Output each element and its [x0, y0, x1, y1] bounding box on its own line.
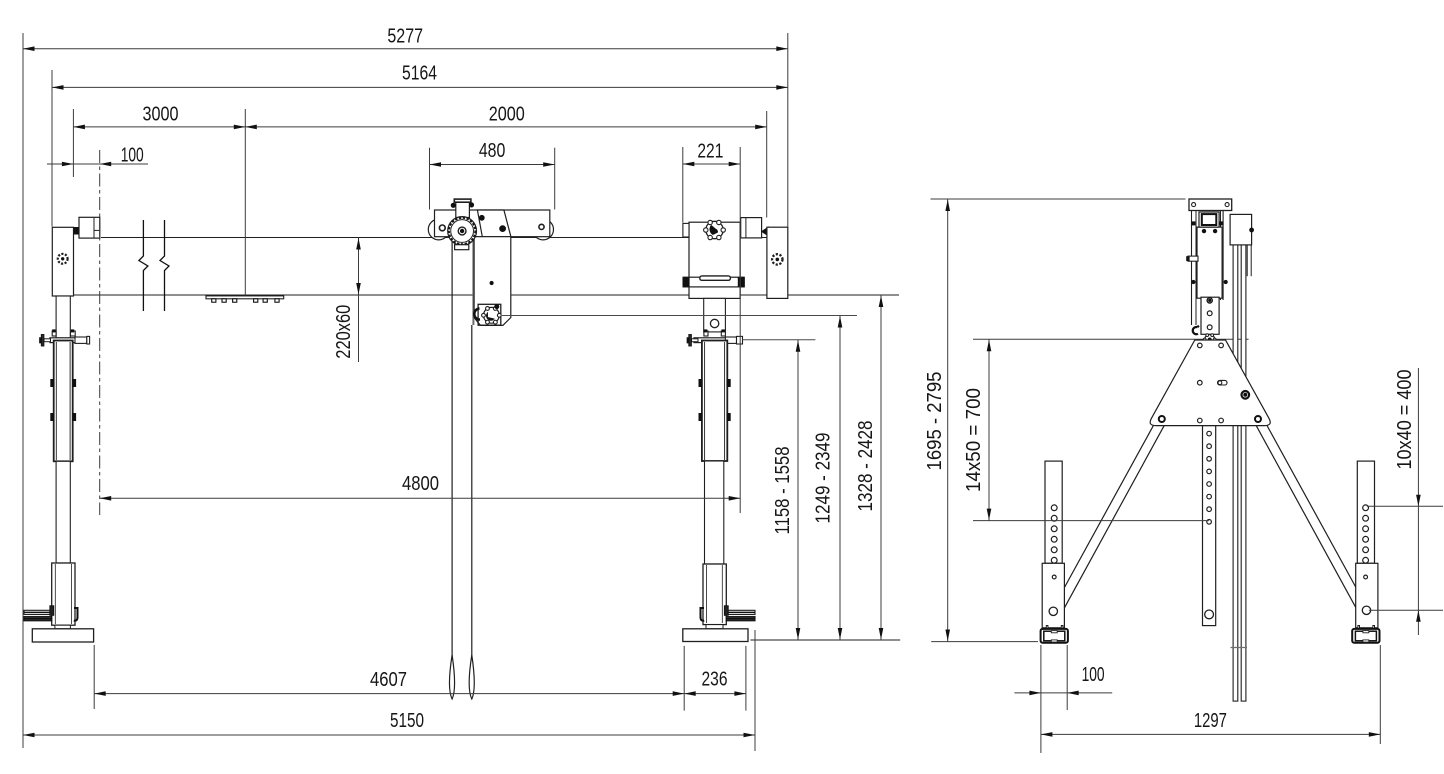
extension line x766.7 (2000 right): [766, 111, 768, 218]
dimension 1158-1558: [797, 340, 799, 640]
right post tube hole: [710, 319, 718, 327]
svg-text:5150: 5150: [390, 710, 424, 732]
svg-text:4800: 4800: [402, 473, 439, 495]
rv winch frame: [1199, 212, 1219, 227]
end bar gear knob: [772, 254, 782, 264]
rv left post holes: [1051, 505, 1057, 511]
hook housing bolt: [495, 305, 499, 309]
svg-text:2000: 2000: [489, 104, 525, 126]
dimension 10x40=400: [1417, 368, 1419, 635]
pulley lower bracket: [455, 245, 469, 250]
trolley plate: [435, 210, 550, 237]
left post mid clamp screw: [75, 337, 87, 343]
trolley top bracket: [456, 202, 470, 217]
dimension 480: [430, 164, 555, 166]
hook housing box: [478, 304, 501, 325]
beam right end bar: [767, 227, 788, 298]
dimension 5150: [23, 734, 755, 736]
clamp lever black triangle: [762, 227, 769, 236]
rv mast channel: [1197, 227, 1222, 298]
rv dimension 1297: [1041, 733, 1380, 735]
rv left leg: [1049, 421, 1157, 617]
rv box lower lines: [1246, 245, 1248, 276]
dimension 4607: [94, 693, 684, 695]
right post neck: [706, 625, 723, 629]
beam bottom line (extends right as ref for 1328-2428): [74, 294, 899, 296]
trolley top bracket bolts: [451, 203, 455, 207]
extension line x682.8 (221 left): [682, 147, 684, 223]
rv left post lower box: [1042, 563, 1064, 628]
hanger bracket (trapezoid): [477, 210, 511, 237]
rv right attachment box: [1230, 214, 1252, 245]
beam break line 1: [139, 220, 148, 311]
pulley inner rings: [458, 227, 466, 235]
extension line x94.2 (4607 left): [93, 645, 95, 709]
trolley right wheel hole: [539, 224, 544, 229]
rv lower plate hole 1: [1207, 298, 1212, 303]
right post mid clamp bar: [694, 338, 736, 343]
mounting plate under beam: [206, 296, 284, 299]
right post sleeve bolts lower: [699, 414, 702, 421]
rv left post upper: [1045, 461, 1062, 563]
bolt mark at beam left box: [74, 228, 78, 235]
lower hook reference line y315.5: [502, 315, 857, 317]
rv extension x1380.3: [1379, 645, 1381, 744]
dimension 4800: [100, 497, 741, 499]
beam break line 2: [160, 220, 169, 311]
rv star knob: [1205, 335, 1215, 345]
dimension 5277: [23, 48, 788, 50]
suspension plate dot: [490, 281, 493, 284]
rv right post big hole: [1362, 606, 1370, 614]
svg-text:1158 - 1558: 1158 - 1558: [772, 447, 794, 535]
rv box bolt: [1250, 228, 1254, 232]
extension line x745.9 (236 right): [745, 646, 747, 711]
rope loop left: [450, 655, 455, 699]
dimension 14x50=700: [988, 339, 990, 520]
rv 14x50 bottom ref line: [973, 520, 1209, 522]
rv center strap holes: [1207, 431, 1212, 436]
dimension 1695-2795: [947, 199, 949, 642]
right post sleeve: [702, 341, 727, 462]
rv right post small hole: [1364, 575, 1368, 579]
rv plate bottom holes: [1159, 416, 1165, 422]
left post sleeve bolts lower: [51, 414, 54, 421]
rv center strap: [1203, 426, 1216, 626]
mounting plate bolt teeth: [212, 299, 216, 302]
left post sleeve: [54, 341, 73, 462]
rv mast side rail right: [1220, 210, 1222, 300]
rv right foot: [1358, 626, 1360, 630]
beam right end box: [741, 218, 762, 238]
left post lower clamp right hook: [74, 608, 78, 621]
left post mid clamp tabs: [52, 331, 56, 336]
right post lower tube: [705, 461, 724, 564]
rv left post small hole: [1052, 575, 1056, 579]
rv plate hole mid: [1198, 380, 1203, 385]
fork reference line y339.7: [743, 339, 816, 341]
extension line x73.4 (3000 left): [72, 109, 74, 177]
pulley outer: [448, 217, 477, 246]
telescope mast left edge: [451, 237, 453, 657]
svg-text:1249 - 2349: 1249 - 2349: [813, 433, 835, 524]
svg-text:10x40 = 400: 10x40 = 400: [1394, 370, 1416, 470]
left post gear knob: [58, 254, 68, 264]
rv rail bar 1: [1233, 245, 1238, 701]
dimension 3000: [73, 126, 245, 128]
rv center strap bottom hole: [1205, 610, 1214, 619]
left post base plate: [32, 629, 93, 642]
rv rail break marks: [1231, 647, 1248, 649]
suspension plate: [474, 237, 511, 326]
rv mast side rail left: [1191, 210, 1193, 325]
dimension 236: [684, 693, 746, 695]
left post mid clamp T-handle: [44, 339, 51, 342]
svg-text:1297: 1297: [1194, 710, 1227, 732]
left post top block: [52, 227, 73, 296]
left post mid clamp bar: [50, 338, 87, 343]
dimension 5164: [52, 86, 788, 88]
rv top cap: [1189, 199, 1232, 211]
suspension plate bolt 1: [479, 215, 484, 220]
right post lower clamp: [703, 564, 726, 625]
svg-text:100: 100: [1082, 664, 1105, 686]
ground line left view: [750, 639, 900, 641]
dimension 1249-2349: [839, 316, 841, 641]
rv lower plate hole 2: [1207, 311, 1212, 316]
right post lower clamp left hook: [701, 608, 705, 621]
rv extension x1067.2: [1066, 645, 1068, 710]
rv gusset plate: [1150, 340, 1270, 426]
svg-text:14x50 = 700: 14x50 = 700: [963, 388, 985, 492]
suspension plate bolt 2: [500, 226, 506, 232]
rv chain hook: [1193, 326, 1199, 335]
extension line x684.2 (4607/236): [683, 646, 685, 711]
left post lower tube: [56, 461, 70, 563]
svg-text:480: 480: [479, 140, 506, 162]
extension line left x23 (5277/5150): [22, 33, 24, 748]
rv lower plate hole 3: [1207, 325, 1212, 330]
right post mid clamp screw: [725, 337, 736, 343]
extension line right x787.8 (5277/5164): [787, 33, 789, 227]
hook knob: [484, 307, 500, 323]
svg-text:220x60: 220x60: [333, 305, 355, 359]
extension line x245.3 (3000/2000 mid): [244, 109, 246, 295]
svg-text:1695 - 2795: 1695 - 2795: [924, 372, 946, 471]
extension line x755 (5150 right): [754, 630, 756, 751]
right post mid clamp T-handle: [692, 339, 699, 342]
rv ground ref line: [931, 641, 1038, 643]
right post lower clamp handle: [726, 610, 755, 614]
svg-text:5277: 5277: [387, 26, 423, 48]
rv rail bar 2: [1241, 245, 1246, 701]
rv 10x40 bottom ref line: [1369, 609, 1443, 611]
extension line x429.5 (480 left): [429, 148, 431, 210]
svg-text:3000: 3000: [143, 104, 179, 126]
rv frame bolts: [1202, 229, 1205, 232]
right post base plate: [683, 629, 748, 642]
hook: [474, 309, 480, 320]
carriage block: [689, 222, 740, 298]
extension line x740.2 (221 right / 4800 right): [739, 147, 741, 513]
right post upper tube: [704, 298, 726, 332]
svg-text:100: 100: [121, 145, 144, 167]
trolley left wheel: [428, 219, 449, 240]
rv left pin: [1188, 256, 1198, 261]
svg-text:236: 236: [702, 669, 728, 691]
svg-text:1328 - 2428: 1328 - 2428: [855, 421, 877, 512]
rv right leg: [1264, 421, 1372, 617]
left post upper tube: [56, 296, 70, 338]
left post lower clamp handle: [24, 610, 52, 614]
carriage left tab: [683, 223, 689, 237]
rv top extension line: [931, 198, 1186, 200]
extension line x554.7 (480 right): [554, 148, 556, 210]
telescope mast right edge: [471, 325, 473, 657]
carriage star knob: [706, 221, 723, 238]
rv right post lower box: [1356, 563, 1378, 628]
trolley right wheel: [533, 219, 554, 240]
rv 10x40 top ref line: [1367, 505, 1443, 507]
dimension 220x60: [358, 238, 360, 363]
dimension 221: [683, 163, 740, 165]
dimension 2000: [245, 126, 766, 128]
extension line x99.7 (100 right / 4800 left): [99, 150, 101, 515]
left post neck: [55, 625, 71, 629]
right post sleeve bolts upper: [699, 380, 702, 387]
svg-text:5164: 5164: [402, 63, 437, 85]
rv dimension 100: [1014, 692, 1112, 694]
dimension 100 left view: [47, 163, 148, 165]
rv plate slot: [1218, 380, 1228, 385]
svg-text:4607: 4607: [370, 669, 407, 691]
mast shadow edge: [472, 237, 474, 325]
carriage bolt bar: [683, 277, 744, 287]
rv right post upper: [1357, 461, 1374, 563]
svg-text:221: 221: [697, 141, 723, 163]
right post mid clamp tabs: [704, 331, 708, 336]
rv 14x50 top ref line: [973, 338, 1249, 340]
trolley left wheel hole: [439, 225, 445, 231]
rv lower plate: [1201, 297, 1219, 334]
extension line x52 (5164 left): [51, 70, 53, 227]
rope loop right: [469, 655, 474, 699]
rv plate big ring: [1242, 391, 1250, 399]
rv left foot: [1046, 626, 1048, 630]
rv extension x1040.9: [1040, 645, 1042, 753]
left post lower clamp T-bolt: [50, 606, 54, 616]
rv right post holes: [1363, 505, 1369, 511]
rv plate holes top: [1198, 343, 1203, 348]
dimension 1328-2428: [880, 295, 882, 640]
beam left end box: [79, 217, 100, 238]
left post sleeve bolts upper: [51, 380, 54, 387]
right post lower clamp T-bolt: [724, 606, 728, 616]
rv channel bolts: [1192, 280, 1195, 283]
left post lower clamp: [52, 563, 75, 625]
rv left post big hole: [1049, 607, 1057, 615]
beam top line: [101, 237, 788, 239]
